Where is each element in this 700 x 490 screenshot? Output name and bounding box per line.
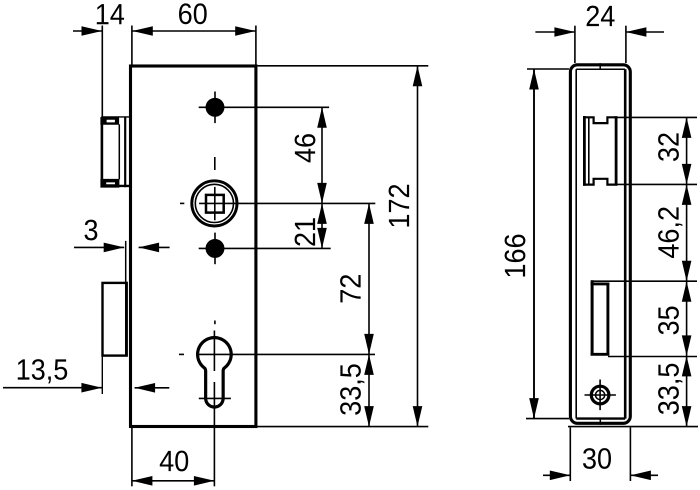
- cylinder stem cross line: [199, 397, 231, 399]
- lower keeper tab left ext line for 13,5: [101, 356, 103, 394]
- dim 33,5 right-view text: [658, 364, 682, 414]
- lower pocket bottom bar: [591, 353, 610, 356]
- euro profile cylinder hole: [198, 338, 232, 407]
- dim 3 line left part: [74, 246, 124, 248]
- dim 13,5 arrow left: [81, 383, 102, 393]
- screw hole vertical centerline: [599, 380, 601, 411]
- ext line upper pocket bottom: [617, 183, 697, 185]
- ext line faceplate right bottom: [629, 428, 631, 482]
- hub horizontal centerline dash left: [180, 202, 184, 204]
- dim 33,5 left-view line: [368, 354, 370, 426]
- dim 24 text: [587, 6, 615, 27]
- lower pocket bottom thin line / ext for 35-33,5: [608, 356, 697, 358]
- upper fixing hole horizontal centerline / ext line for 46: [199, 106, 329, 108]
- dim 172 line: [417, 66, 419, 427]
- dim 30 text: [583, 448, 611, 469]
- lower pocket left edge: [591, 280, 594, 355]
- dim 46 line: [321, 107, 323, 203]
- lower fixing hole horizontal centerline / ext line for 21: [199, 247, 331, 249]
- dim 60 text: [179, 3, 207, 24]
- dim 33,5 right-view arrow up: [682, 356, 692, 377]
- dim 46,2 arrow up: [682, 184, 692, 205]
- square follower hub inner circle: [195, 184, 233, 222]
- ext line faceplate top for 166: [527, 68, 569, 70]
- dim 35 text: [658, 306, 679, 334]
- upper pocket right edge: [615, 116, 618, 185]
- lower fixing hole (filled): [206, 239, 224, 257]
- dim 14 arrow: [82, 26, 103, 36]
- dim 172 arrow up: [413, 66, 423, 87]
- lower pocket divider line: [606, 283, 609, 355]
- upper pocket top profile: [583, 117, 617, 123]
- dim 33,5 left-view text: [340, 364, 364, 414]
- dim 72 arrow up: [364, 203, 374, 224]
- upper fixing hole vertical centerline: [214, 92, 216, 124]
- dim 46 text: [295, 134, 316, 162]
- ext line case left: [574, 26, 576, 63]
- ext line body left bottom: [131, 428, 133, 486]
- upper keeper tab inner vertical line: [118, 124, 120, 179]
- upper pocket left edge: [583, 116, 586, 186]
- dim 172 text: [389, 185, 410, 227]
- dim 3 arrow left: [104, 243, 125, 253]
- dim 72 arrow down: [364, 334, 374, 355]
- ext line body right top: [255, 26, 257, 67]
- dim 3 line right part: [139, 246, 170, 248]
- upper pocket inner line: [588, 118, 590, 185]
- square follower hub outer circle: [192, 181, 237, 226]
- dim 33,5 left-view arrow down: [364, 406, 374, 427]
- faceplate left edge line (top segment): [101, 26, 103, 118]
- dim 72 line: [368, 203, 370, 354]
- screw hole horizontal centerline: [585, 394, 616, 396]
- dim 60 arrow right: [235, 26, 256, 36]
- screw hole outer circle: [591, 386, 609, 404]
- ext line body left top: [131, 26, 133, 67]
- dim 172 arrow down: [413, 406, 423, 427]
- dim 21 line: [321, 203, 323, 248]
- dim 33,5 left-view arrow up: [364, 354, 374, 375]
- ext line body top right: [257, 65, 428, 67]
- lower fixing hole vertical centerline: [214, 233, 216, 265]
- faceplate bottom joint tick: [599, 419, 601, 425]
- dim 32 arrow up: [682, 117, 692, 137]
- lower keeper tab outline: [103, 283, 127, 356]
- dim 46,2 arrow down: [682, 261, 692, 282]
- dim 24 arrow left: [554, 27, 575, 37]
- screw hole inner circle: [596, 390, 605, 399]
- dim 46 arrow down: [317, 183, 327, 204]
- dim 46 arrow up: [317, 107, 327, 128]
- cylinder vertical centerline lower / ext for 40: [213, 382, 215, 486]
- cylinder vertical centerline upper: [213, 331, 215, 372]
- dim 14 text: [97, 4, 124, 24]
- dim 32 text: [658, 133, 679, 161]
- lower pocket top thin line / ext for 46,2-35: [591, 280, 697, 282]
- ext line faceplate bottom right: [568, 426, 698, 428]
- faceplate inner bottom line: [576, 417, 625, 419]
- upper keeper tab left edge: [101, 117, 104, 187]
- dim 24 arrow right: [626, 27, 647, 37]
- dim 21 arrow down: [317, 228, 327, 249]
- square spindle hole: [206, 195, 224, 213]
- dim 166 line: [533, 69, 535, 419]
- dim 60 arrow left: [132, 26, 153, 36]
- dim 13,5 line left part: [3, 387, 102, 389]
- dim 21 arrow up: [317, 203, 327, 224]
- dim 46,2 line: [686, 184, 688, 281]
- dim 33,5 right-view arrow down: [682, 406, 692, 427]
- dim 13,5 text: [18, 359, 67, 383]
- dim 166 arrow down: [529, 398, 539, 419]
- dim 24 line right part: [626, 31, 664, 33]
- dim 40 text: [160, 451, 188, 472]
- dim 3 arrow right: [139, 243, 160, 253]
- dim 35 arrow down: [682, 335, 692, 356]
- lower pocket top bar: [591, 282, 610, 285]
- dim 40 line: [132, 480, 215, 482]
- dim 24 line left part: [535, 31, 575, 33]
- hub vertical centerline: [214, 187, 216, 220]
- dim 30 arrow left: [550, 471, 571, 481]
- dim 166 text: [505, 235, 526, 277]
- cylinder vertical centerline dash: [214, 321, 216, 325]
- dim 30 line left part: [543, 474, 570, 476]
- dim 32 line: [686, 117, 688, 184]
- upper keeper tab bottom line: [101, 185, 130, 187]
- dim 21 text: [295, 218, 316, 245]
- dim 60 line: [132, 30, 255, 32]
- faceplate top joint tick: [599, 63, 601, 70]
- dim 3 text: [85, 220, 98, 241]
- cylinder horizontal centerline dash left: [179, 353, 184, 355]
- dim 35 arrow up: [682, 281, 692, 302]
- dim 40 arrow right: [194, 476, 215, 486]
- dim 30 arrow right: [630, 471, 651, 481]
- ext line faceplate bottom for 166: [526, 418, 569, 420]
- dim 35 line: [686, 281, 688, 356]
- dim 13,5 line right part: [135, 387, 170, 389]
- dim 166 arrow up: [529, 69, 539, 90]
- dim 40 arrow left: [132, 476, 153, 486]
- dim 32 arrow down: [682, 164, 692, 185]
- faceplate inner left line: [575, 69, 577, 418]
- dim 33,5 right-view line: [686, 356, 688, 427]
- dim 30 line right part: [630, 474, 658, 476]
- upper pocket bottom profile: [583, 179, 617, 185]
- upper keeper tab top line: [101, 116, 130, 118]
- upper keeper tab right line: [124, 117, 126, 187]
- upper keeper tab top clip (black): [101, 118, 119, 125]
- cover plate edge line (3 mm plate): [125, 241, 127, 282]
- faceplate inner top line: [576, 68, 625, 70]
- lock case body outline (front view): [131, 66, 256, 427]
- faceplate outline (side view, rounded): [570, 65, 630, 424]
- ext line case right: [625, 26, 627, 63]
- hub vertical centerline dash above: [214, 157, 216, 170]
- dim 46,2 text: [658, 207, 682, 258]
- upper fixing hole (filled): [206, 98, 224, 116]
- ext line body bottom right: [257, 426, 428, 428]
- dim 14 line: [73, 30, 102, 32]
- faceplate inner right line: [624, 69, 627, 418]
- hub horizontal centerline / ext line for 46-21-72: [199, 202, 375, 204]
- cylinder horizontal centerline / ext line for 72-33,5: [199, 353, 375, 355]
- dim 72 text: [340, 275, 361, 302]
- dim 13,5 arrow right: [135, 383, 156, 393]
- upper keeper tab bottom clip (black): [101, 179, 119, 187]
- lower keeper tab right inner line: [125, 282, 128, 356]
- ext line upper pocket top: [617, 116, 697, 118]
- ext line faceplate left bottom: [569, 428, 571, 482]
